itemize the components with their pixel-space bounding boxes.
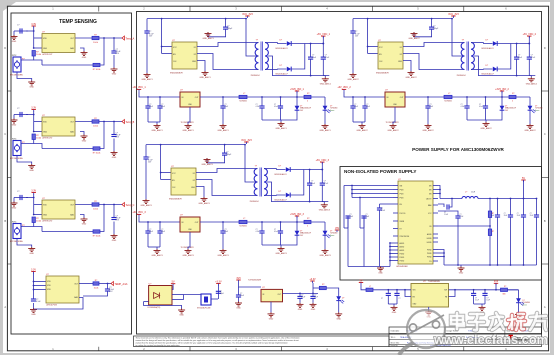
svg-text:TLHG4900: TLHG4900: [330, 233, 338, 235]
svg-text:GND_AMC1: GND_AMC1: [319, 129, 331, 132]
svg-text:GND: GND: [236, 308, 241, 310]
svg-text:LM5164DDAR: LM5164DDAR: [396, 265, 408, 268]
svg-text:+6V_VDC_3: +6V_VDC_3: [316, 159, 330, 162]
svg-text:GND_AMC2: GND_AMC2: [526, 83, 538, 86]
svg-text:GND: GND: [82, 224, 87, 226]
svg-text:GND_AMC1: GND_AMC1: [199, 76, 211, 79]
svg-text:C?: C?: [460, 214, 462, 216]
svg-text:GND: GND: [392, 312, 397, 314]
svg-text:ERTJ0EG103FA: ERTJ0EG103FA: [10, 73, 23, 76]
svg-text:GND: GND: [82, 57, 87, 59]
svg-text:SYNC/MODE: SYNC/MODE: [400, 236, 410, 238]
svg-text:2.2uF: 2.2uF: [444, 214, 448, 216]
svg-text:22uF: 22uF: [517, 215, 521, 217]
svg-text:10uF: 10uF: [518, 57, 522, 59]
svg-text:A: A: [4, 305, 6, 309]
svg-text:10uF: 10uF: [311, 183, 315, 185]
svg-text:C?: C?: [444, 212, 446, 214]
svg-text:PGOOD: PGOOD: [400, 213, 407, 215]
svg-text:GND: GND: [12, 208, 17, 210]
svg-text:GND_AMC3: GND_AMC3: [182, 254, 194, 257]
svg-text:560pF: 560pF: [433, 28, 439, 30]
svg-text:GND: GND: [29, 170, 34, 172]
svg-text:D?: D?: [330, 231, 332, 233]
svg-text:GND_AMC1: GND_AMC1: [217, 129, 229, 132]
svg-text:D?: D?: [535, 106, 537, 108]
svg-text:R?: R?: [322, 284, 324, 286]
svg-text:10uF: 10uF: [354, 106, 358, 108]
svg-text:10uF: 10uF: [225, 231, 229, 233]
svg-text:GND_AMC1: GND_AMC1: [202, 37, 214, 40]
svg-text:GND_AMC2: GND_AMC2: [347, 78, 359, 81]
svg-text:D2: D2: [194, 54, 196, 56]
svg-text:742792662: 742792662: [239, 226, 247, 228]
svg-text:SW: SW: [444, 290, 447, 292]
svg-text:D?: D?: [300, 231, 302, 233]
svg-text:C?: C?: [504, 213, 506, 215]
svg-text:Temp_A: Temp_A: [126, 38, 135, 41]
svg-text:C?: C?: [256, 104, 258, 106]
svg-text:760390014: 760390014: [457, 75, 466, 77]
svg-text:GND: GND: [192, 61, 197, 63]
svg-text:A: A: [544, 305, 546, 309]
svg-text:3.3V: 3.3V: [31, 189, 36, 192]
svg-text:C?: C?: [399, 298, 401, 300]
svg-text:5V: 5V: [172, 281, 175, 284]
svg-text:D?: D?: [342, 297, 344, 299]
svg-text:TEMP_Amb: TEMP_Amb: [115, 283, 129, 286]
svg-text:VCC_3V3: VCC_3V3: [448, 13, 459, 16]
svg-text:D1: D1: [193, 173, 195, 175]
svg-text:GND_AMC2: GND_AMC2: [356, 129, 368, 132]
svg-text:GND: GND: [112, 74, 117, 76]
svg-text:D: D: [544, 46, 546, 50]
svg-text:Sheet Title:: Sheet Title:: [391, 341, 400, 344]
svg-text:Temp_C: Temp_C: [126, 204, 135, 207]
svg-text:D2: D2: [400, 54, 402, 56]
svg-text:0.1uF: 0.1uF: [274, 231, 278, 233]
svg-text:4.7uF: 4.7uF: [325, 57, 329, 59]
svg-text:GND: GND: [12, 125, 17, 127]
svg-text:+3.3V: +3.3V: [309, 278, 316, 281]
svg-text:10uF: 10uF: [161, 106, 165, 108]
svg-text:C?: C?: [491, 213, 493, 215]
svg-text:+6V_VDC_1: +6V_VDC_1: [317, 33, 331, 36]
svg-text:LMT87DCKT: LMT87DCKT: [42, 221, 53, 223]
svg-text:C?: C?: [366, 104, 368, 106]
svg-text:C?: C?: [17, 191, 19, 193]
svg-text:D?: D?: [330, 106, 332, 108]
svg-text:GND_AMC2: GND_AMC2: [387, 129, 399, 132]
svg-text:GND_AMC2: GND_AMC2: [524, 129, 536, 132]
svg-text:10.0k: 10.0k: [94, 288, 99, 290]
svg-text:warrant that the design will m: warrant that the design will meet the sp…: [136, 339, 300, 342]
svg-text:GND_AMC1: GND_AMC1: [320, 83, 332, 86]
svg-text:10uF: 10uF: [314, 297, 318, 299]
svg-text:C?: C?: [17, 108, 19, 110]
svg-text:GND_AMC2: GND_AMC2: [422, 129, 434, 132]
svg-text:560pF: 560pF: [226, 154, 232, 156]
svg-text:742792662: 742792662: [444, 101, 452, 103]
svg-text:10uF: 10uF: [240, 295, 244, 297]
svg-text:4.7uF: 4.7uF: [256, 106, 260, 108]
svg-text:680: 680: [503, 294, 506, 296]
svg-text:0.1uF: 0.1uF: [274, 106, 278, 108]
svg-text:R?: R?: [307, 218, 309, 220]
svg-text:GND: GND: [459, 273, 464, 275]
svg-text:+5V0_ISO_3: +5V0_ISO_3: [290, 213, 304, 216]
svg-text:5V: 5V: [522, 177, 525, 180]
svg-text:GND: GND: [112, 157, 117, 159]
svg-text:3V3: 3V3: [236, 277, 241, 280]
svg-text:GND_AMC2: GND_AMC2: [480, 127, 492, 130]
svg-text:0: 0: [307, 226, 308, 228]
svg-text:TLV76050DBZR: TLV76050DBZR: [181, 247, 195, 249]
svg-text:TID #:: TID #:: [391, 337, 397, 339]
svg-text:D?: D?: [523, 300, 525, 302]
svg-text:22uF: 22uF: [504, 215, 508, 217]
svg-text:GND: GND: [43, 215, 48, 217]
svg-text:+6V_VDC_2: +6V_VDC_2: [523, 33, 537, 36]
svg-text:GND: GND: [298, 309, 303, 311]
svg-text:FOD8001A(TR): FOD8001A(TR): [148, 306, 161, 309]
svg-text:0.1uF: 0.1uF: [475, 300, 479, 302]
svg-text:Drawn By:: Drawn By:: [391, 345, 399, 347]
svg-text:OUT: OUT: [277, 294, 281, 296]
svg-text:TEMP SENSING: TEMP SENSING: [59, 19, 97, 25]
svg-text:D2: D2: [193, 180, 195, 182]
svg-text:GND: GND: [82, 141, 87, 143]
svg-text:D?: D?: [505, 106, 507, 108]
svg-text:3.3V: 3.3V: [31, 106, 36, 109]
svg-text:SIT1602BI-P2-33E: SIT1602BI-P2-33E: [197, 308, 210, 310]
svg-text:3.6V: 3.6V: [300, 110, 303, 112]
svg-text:GND: GND: [31, 314, 36, 316]
svg-text:LMT87DCKT: LMT87DCKT: [42, 138, 53, 140]
svg-text:0.1uF: 0.1uF: [479, 106, 483, 108]
svg-text:0: 0: [307, 101, 308, 103]
svg-text:10uF: 10uF: [366, 106, 370, 108]
svg-text:22uF: 22uF: [530, 215, 534, 217]
svg-text:10uF: 10uF: [161, 231, 165, 233]
svg-text:C?: C?: [354, 104, 356, 106]
svg-text:GND_AMC1: GND_AMC1: [275, 127, 287, 130]
svg-text:3V3: 3V3: [494, 280, 499, 283]
svg-text:4.7uF: 4.7uF: [460, 216, 464, 218]
svg-text:C?: C?: [487, 298, 489, 300]
svg-text:TLHG4900: TLHG4900: [523, 302, 531, 304]
svg-text:TLV76033DBZR: TLV76033DBZR: [386, 122, 400, 124]
svg-text:GND_AMC3: GND_AMC3: [319, 254, 331, 257]
svg-text:R? 10.0k: R? 10.0k: [93, 69, 101, 71]
svg-text:GND_AMC1: GND_AMC1: [182, 129, 194, 132]
svg-text:C?: C?: [475, 298, 477, 300]
svg-text:GND_AMC3: GND_AMC3: [151, 254, 163, 257]
svg-text:10uF: 10uF: [312, 57, 316, 59]
svg-text:+3V3_ISO_2: +3V3_ISO_2: [495, 88, 509, 91]
svg-text:LMT87DCKT: LMT87DCKT: [42, 54, 53, 56]
svg-text:10.0k: 10.0k: [36, 54, 41, 56]
svg-text:SN6505BDBVR: SN6505BDBVR: [169, 199, 182, 201]
svg-text:GND_AMC2: GND_AMC2: [408, 37, 420, 40]
svg-text:C?: C?: [314, 294, 316, 296]
svg-text:GND: GND: [112, 240, 117, 242]
svg-text:VIN: VIN: [335, 227, 339, 230]
svg-text:C?: C?: [225, 229, 227, 231]
svg-text:0.1uF: 0.1uF: [301, 297, 305, 299]
svg-text:10uF: 10uF: [350, 216, 354, 218]
svg-text:4.7uF: 4.7uF: [256, 231, 260, 233]
svg-text:4.7uF: 4.7uF: [324, 183, 328, 185]
svg-text:GND: GND: [336, 319, 341, 321]
svg-text:TLV62568DBV: TLV62568DBV: [428, 281, 441, 283]
svg-text:D1: D1: [400, 47, 402, 49]
svg-text:D: D: [4, 46, 6, 50]
svg-text:+6V_VDC_2: +6V_VDC_2: [337, 86, 351, 89]
svg-text:C?: C?: [274, 104, 276, 106]
svg-text:GND: GND: [398, 61, 403, 63]
svg-text:C?: C?: [479, 104, 481, 106]
svg-text:C?: C?: [161, 229, 163, 231]
svg-text:C?: C?: [350, 214, 352, 216]
svg-text:ERTJ0EG103FA: ERTJ0EG103FA: [10, 240, 23, 243]
svg-text:www.elecfans.com: www.elecfans.com: [433, 332, 548, 347]
svg-text:10uF: 10uF: [225, 106, 229, 108]
svg-text:C?: C?: [366, 214, 368, 216]
svg-text:4.7uF: 4.7uF: [531, 57, 535, 59]
svg-text:TLV76050DBZR: TLV76050DBZR: [181, 122, 195, 124]
svg-text:ERTJ0EG103FA: ERTJ0EG103FA: [10, 157, 23, 160]
svg-text:10uF: 10uF: [487, 300, 491, 302]
svg-text:C?: C?: [301, 294, 303, 296]
svg-text:C: C: [544, 132, 546, 136]
svg-text:Orderable:: Orderable:: [391, 330, 400, 333]
svg-text:GND: GND: [269, 319, 274, 321]
svg-text:C?: C?: [381, 208, 383, 210]
svg-text:C: C: [4, 132, 6, 136]
svg-text:C?: C?: [17, 25, 19, 27]
svg-text:C?: C?: [381, 298, 383, 300]
svg-text:FB: FB: [429, 226, 431, 228]
svg-text:Temp_B: Temp_B: [126, 121, 135, 124]
svg-text:C?: C?: [274, 229, 276, 231]
svg-text:R? 10.0k: R? 10.0k: [93, 236, 101, 238]
svg-text:GND: GND: [12, 41, 17, 43]
svg-text:10.0k: 10.0k: [93, 126, 98, 128]
svg-text:GND_AMC1: GND_AMC1: [141, 78, 153, 81]
svg-text:C?: C?: [430, 104, 432, 106]
svg-text:5V: 5V: [360, 279, 363, 282]
svg-text:10.0k: 10.0k: [36, 138, 41, 140]
svg-text:VCC_3V3: VCC_3V3: [242, 13, 253, 16]
svg-text:10uF: 10uF: [491, 215, 495, 217]
svg-text:R?: R?: [492, 231, 494, 233]
svg-text:10uF: 10uF: [430, 106, 434, 108]
svg-text:RT: RT: [400, 228, 402, 230]
svg-text:GND_AMC3: GND_AMC3: [319, 209, 331, 212]
svg-text:10.0k: 10.0k: [93, 209, 98, 211]
svg-text:R?: R?: [504, 286, 506, 288]
svg-text:D?: D?: [300, 106, 302, 108]
svg-text:GND: GND: [191, 187, 196, 189]
svg-text:GND_AMC3: GND_AMC3: [201, 163, 213, 166]
svg-text:R? 10.0k: R? 10.0k: [93, 153, 101, 155]
svg-text:R?: R?: [307, 93, 309, 95]
svg-text:C?: C?: [225, 104, 227, 106]
svg-text:+5V0_ISO_1: +5V0_ISO_1: [290, 88, 304, 91]
svg-text:to confirm the system function: to confirm the system functionality for …: [136, 344, 181, 347]
svg-text:C?: C?: [517, 213, 519, 215]
svg-text:GND: GND: [43, 48, 48, 50]
svg-text:+3.3V: +3.3V: [215, 280, 222, 283]
svg-text:SN6505BDBVR: SN6505BDBVR: [376, 73, 389, 75]
svg-text:3.6V: 3.6V: [505, 110, 508, 112]
svg-text:2.2uF: 2.2uF: [381, 210, 385, 212]
svg-text:GND: GND: [29, 253, 34, 255]
svg-text:+6V_VDC_1: +6V_VDC_1: [132, 86, 146, 89]
svg-text:VCC_3V3: VCC_3V3: [241, 139, 252, 142]
svg-text:560pF: 560pF: [227, 28, 233, 30]
svg-text:C?: C?: [149, 229, 151, 231]
svg-text:GND_AMC2: GND_AMC2: [405, 76, 417, 79]
svg-text:0: 0: [512, 101, 513, 103]
svg-text:TLHG4900: TLHG4900: [535, 108, 543, 110]
svg-text:10uF: 10uF: [149, 231, 153, 233]
svg-text:C?: C?: [161, 104, 163, 106]
svg-text:3.6V: 3.6V: [300, 235, 303, 237]
svg-text:CBOOT: CBOOT: [426, 198, 432, 200]
svg-text:TLV76033DBZR: TLV76033DBZR: [248, 280, 262, 282]
svg-text:D1: D1: [194, 47, 196, 49]
svg-text:B: B: [4, 219, 6, 223]
svg-text:10.0k: 10.0k: [36, 221, 41, 223]
svg-text:742792662: 742792662: [239, 101, 247, 103]
svg-text:3.3V: 3.3V: [31, 268, 36, 271]
svg-text:C?: C?: [256, 229, 258, 231]
svg-text:GND: GND: [179, 315, 184, 317]
svg-text:+6V_VDC_3: +6V_VDC_3: [132, 211, 146, 214]
svg-text:3.3V: 3.3V: [31, 23, 36, 26]
svg-text:R?: R?: [512, 93, 514, 95]
svg-text:10.0k: 10.0k: [93, 42, 98, 44]
svg-text:C?: C?: [461, 104, 463, 106]
svg-text:C?: C?: [149, 104, 151, 106]
svg-text:GND: GND: [311, 309, 316, 311]
svg-text:GND_AMC3: GND_AMC3: [198, 202, 210, 205]
svg-text:C?: C?: [530, 213, 532, 215]
svg-text:B: B: [544, 219, 546, 223]
svg-text:760390014: 760390014: [250, 201, 259, 203]
svg-text:GND_AMC3: GND_AMC3: [217, 254, 229, 257]
svg-text:10uF: 10uF: [149, 106, 153, 108]
svg-text:GND_AMC3: GND_AMC3: [140, 204, 152, 207]
svg-text:SS/FB: SS/FB: [400, 221, 405, 223]
svg-text:GND_AMC3: GND_AMC3: [275, 252, 287, 255]
svg-text:10uF: 10uF: [366, 216, 370, 218]
svg-text:GND: GND: [29, 87, 34, 89]
svg-text:GND_AMC1: GND_AMC1: [151, 129, 163, 132]
svg-text:SN6505BDBVR: SN6505BDBVR: [170, 73, 183, 75]
svg-text:warrant that the design will m: warrant that the design will meet the sp…: [136, 342, 288, 345]
svg-text:760390014: 760390014: [251, 75, 260, 77]
svg-text:GND: GND: [378, 273, 383, 275]
svg-text:LMT01LPGM: LMT01LPGM: [46, 305, 57, 307]
svg-text:GND: GND: [43, 132, 48, 134]
svg-text:These materials are for refere: These materials are for reference only. …: [136, 336, 300, 339]
svg-text:NON-ISOLATED POWER SUPPLY: NON-ISOLATED POWER SUPPLY: [344, 169, 417, 174]
svg-text:18pF: 18pF: [220, 293, 224, 295]
svg-text:4.7uF: 4.7uF: [461, 106, 465, 108]
svg-text:L?: L?: [369, 286, 371, 288]
svg-text:TLHG4900: TLHG4900: [330, 108, 338, 110]
svg-text:POWER SUPPLY FOR AMC1300M06ZW: POWER SUPPLY FOR AMC1300M06ZWVR: [412, 147, 504, 152]
